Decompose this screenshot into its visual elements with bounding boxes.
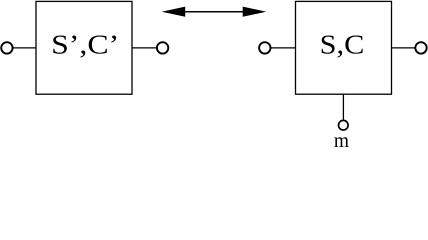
wire S',C' box to right terminal (132, 47, 157, 49)
svg-text:S,C: S,C (320, 29, 365, 59)
terminal circle left of S,C (259, 42, 270, 53)
terminal circle right of S',C' (157, 42, 168, 53)
wire left terminal to S,C box (271, 47, 296, 49)
block S',C' (36, 1, 132, 94)
terminal circle right of S,C (415, 42, 426, 53)
svg-text:m: m (334, 130, 350, 151)
terminal circle m below S,C (339, 120, 349, 130)
wire left terminal to S',C' box (13, 47, 37, 49)
block S,C (296, 1, 392, 94)
wire S,C box bottom stub (342, 94, 344, 120)
wire S,C box to right terminal (391, 47, 415, 49)
terminal circle left of S',C' (1, 42, 12, 53)
svg-text:S’,C’: S’,C’ (51, 29, 119, 59)
double-headed arrow between blocks (162, 7, 267, 17)
